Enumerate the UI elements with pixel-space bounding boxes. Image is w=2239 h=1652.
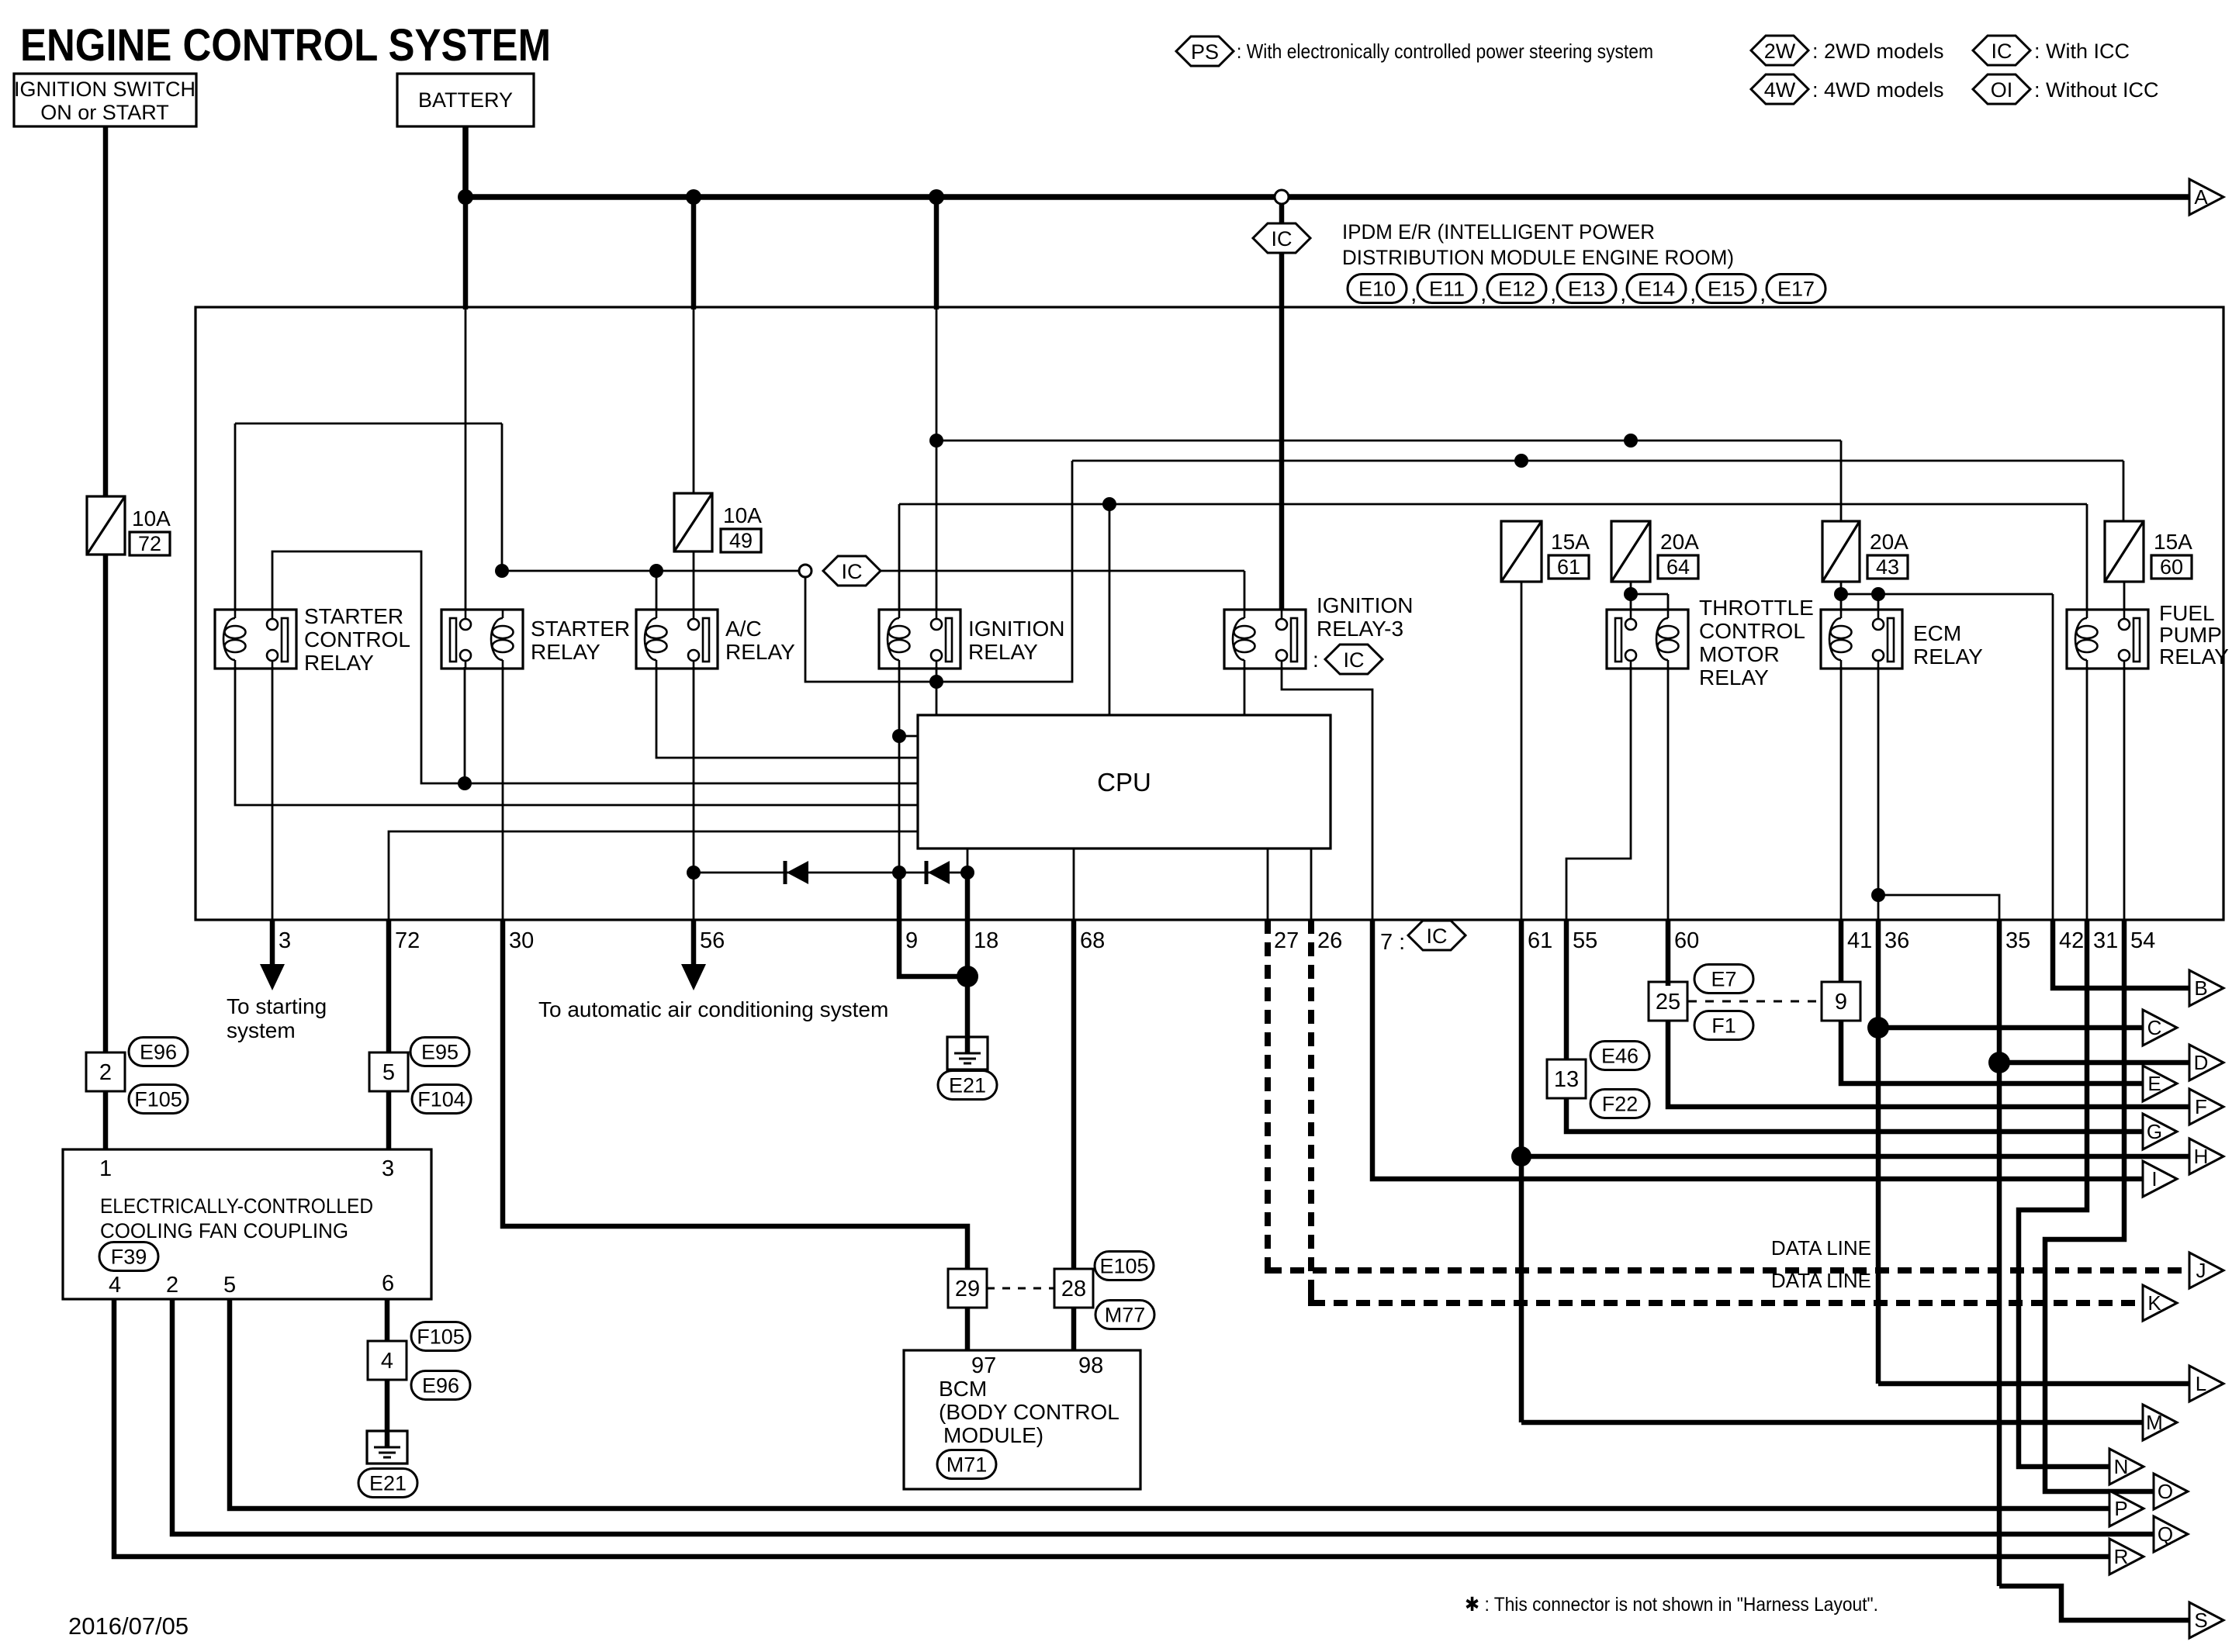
svg-text:K: K: [2147, 1291, 2161, 1315]
wire fan pin6 to connector4: [385, 1299, 390, 1341]
svg-text:: 2WD models: : 2WD models: [1812, 40, 1944, 63]
wire pin61 down to M: [1519, 920, 1524, 1422]
svg-text:F104: F104: [417, 1088, 465, 1111]
svg-text:97: 97: [971, 1353, 996, 1378]
legend 2W hexagon: [1751, 36, 1808, 65]
wire relay3 sw to pin7: [1282, 667, 1372, 920]
svg-text:7 :: 7 :: [1380, 930, 1405, 955]
wire pin42 to B: [2053, 920, 2189, 988]
svg-text:E95: E95: [421, 1041, 459, 1064]
svg-text:IC: IC: [1427, 924, 1448, 948]
svg-text:9: 9: [905, 928, 918, 953]
connector arrow J: [2189, 1253, 2223, 1288]
node ignition feed tap: [929, 434, 943, 448]
legend OI hexagon: [1973, 74, 2030, 104]
node starter relay sw bottom: [458, 776, 472, 790]
legend IC hexagon: [1973, 36, 2030, 65]
wire connector2 to fan pin1: [103, 1091, 109, 1149]
svg-text:CONTROL: CONTROL: [1699, 619, 1805, 643]
svg-text:STARTER: STARTER: [531, 617, 630, 641]
svg-text:system: system: [227, 1018, 296, 1042]
wire pin3 arrow to starting system: [270, 920, 275, 967]
svg-text:42: 42: [2059, 928, 2084, 953]
node fuse43 out: [1834, 587, 1848, 601]
wire A/C feed to fuse49: [693, 307, 695, 493]
svg-text:PS: PS: [1191, 40, 1219, 64]
wire ICC feed thick: [1279, 253, 1285, 610]
svg-text:4: 4: [381, 1349, 393, 1374]
oval E7: [1694, 965, 1753, 994]
svg-text:E11: E11: [1429, 278, 1465, 301]
wire relay coil bus y736: [502, 570, 812, 572]
wire fuel coil to pin31: [2086, 667, 2088, 920]
wire ign coil to CPU area: [898, 667, 901, 920]
wire M line: [1521, 1420, 2143, 1426]
svg-text:E15: E15: [1708, 278, 1745, 301]
svg-text:18: 18: [974, 928, 998, 953]
svg-text:,: ,: [1480, 281, 1486, 306]
relay ignition-3: [1224, 610, 1306, 669]
oval F105 lower: [411, 1322, 470, 1351]
wire starter control sw to pin3: [272, 667, 274, 920]
svg-text:J: J: [2196, 1259, 2206, 1282]
svg-text:E21: E21: [369, 1472, 407, 1495]
svg-text:,: ,: [1410, 281, 1417, 306]
wire fuse72 to connector 2: [103, 555, 109, 1053]
svg-text:: 4WD models: : 4WD models: [1812, 78, 1944, 102]
svg-text:60: 60: [1674, 928, 1699, 953]
wire pin9 to ground join: [899, 875, 967, 976]
bus wire: [465, 194, 2189, 200]
svg-text:72: 72: [395, 928, 420, 953]
svg-text:E96: E96: [140, 1041, 177, 1064]
node fuse61 tap: [1514, 454, 1528, 468]
svg-text:25: 25: [1656, 990, 1680, 1014]
wire pin30 to BCM 97: [503, 920, 967, 1273]
wire fan pin5 to P: [230, 1299, 2109, 1509]
svg-text:ECM: ECM: [1913, 621, 1961, 645]
node 36-35 link: [1871, 888, 1885, 902]
node starter coil tap: [495, 564, 509, 578]
diode D2: [925, 861, 929, 884]
svg-text:68: 68: [1080, 928, 1105, 953]
connector arrow B: [2189, 970, 2223, 1006]
svg-text:ON or START: ON or START: [40, 101, 169, 124]
connector arrow S: [2189, 1602, 2223, 1638]
oval F104: [412, 1085, 471, 1114]
svg-text:O: O: [2158, 1480, 2173, 1503]
svg-text:61: 61: [1528, 928, 1552, 953]
svg-text:E12: E12: [1498, 278, 1535, 301]
svg-text:41: 41: [1847, 928, 1872, 953]
svg-text:G: G: [2147, 1120, 2162, 1143]
wire fuse49 to A/C relay: [693, 551, 695, 610]
wire coil row y650: [899, 503, 2087, 506]
wire pin54 to O: [2045, 920, 2154, 1491]
wire pin41 to box9: [1839, 920, 1844, 986]
wire CPU pin26 down: [1310, 848, 1313, 920]
svg-text:STARTER: STARTER: [304, 604, 403, 628]
svg-text:,: ,: [1620, 281, 1626, 306]
dashed link 25-9: [1688, 1001, 1822, 1003]
wire pin56 arrow to A/C system: [691, 920, 697, 967]
wire fuse61 down: [1521, 582, 1523, 920]
svg-text:A/C: A/C: [725, 617, 762, 641]
svg-text:IGNITION: IGNITION: [1317, 593, 1413, 617]
ignition switch box: [14, 74, 196, 126]
wire ignition feed thick: [934, 197, 940, 309]
svg-text:E14: E14: [1638, 278, 1675, 301]
svg-text:RELAY: RELAY: [968, 640, 1038, 664]
node CPU feed tap: [1102, 497, 1116, 511]
connector box 2 E96/F105: [86, 1052, 125, 1091]
connector arrow C: [2143, 1010, 2177, 1045]
svg-text:M: M: [2146, 1411, 2163, 1434]
node H tap: [1511, 1146, 1531, 1166]
wire ignition feed thin: [936, 307, 938, 610]
connector box 28: [1054, 1269, 1093, 1308]
svg-text:To starting: To starting: [227, 994, 327, 1018]
BCM box: [904, 1350, 1140, 1489]
node diode row 9: [892, 866, 906, 880]
svg-text:BCM: BCM: [939, 1377, 987, 1401]
wire starter coil to pin30: [502, 667, 504, 920]
connector arrow I: [2143, 1161, 2177, 1197]
svg-text:20A: 20A: [1660, 530, 1699, 554]
IPDM E/R box: [196, 307, 2223, 920]
svg-text:CONTROL: CONTROL: [304, 627, 410, 651]
wire ICC feed thick upper: [1279, 203, 1285, 223]
node ignition switch bottom tap: [929, 675, 943, 689]
wire pin26 data line to K: [1308, 920, 1314, 1303]
svg-text:E17: E17: [1777, 278, 1815, 301]
wire fuse64 to relay: [1630, 582, 1632, 610]
svg-text:L: L: [2196, 1372, 2206, 1395]
node ECM switch tap: [1871, 587, 1885, 601]
svg-text:D: D: [2194, 1051, 2209, 1074]
svg-text:IC: IC: [1992, 40, 2012, 63]
oval F39: [99, 1242, 158, 1271]
node ICC bypass circle: [799, 565, 812, 577]
svg-text:2016/07/05: 2016/07/05: [68, 1612, 189, 1640]
svg-text:MODULE): MODULE): [943, 1423, 1043, 1447]
svg-text::: :: [1313, 648, 1319, 672]
wire A/C coil drop: [656, 571, 658, 610]
svg-text:CPU: CPU: [1097, 768, 1151, 797]
wire A/C sw to pin56: [693, 667, 695, 920]
svg-text:COOLING FAN COUPLING: COOLING FAN COUPLING: [100, 1219, 348, 1242]
svg-text:OI: OI: [1991, 78, 2013, 102]
node ground join: [957, 966, 978, 987]
svg-text:S: S: [2194, 1609, 2207, 1632]
relay ignition: [879, 610, 960, 669]
fuse 72 10A: [87, 496, 125, 555]
svg-text:,: ,: [1690, 281, 1696, 306]
connector arrow H: [2189, 1139, 2223, 1174]
svg-text:3: 3: [279, 928, 291, 953]
svg-text:64: 64: [1666, 555, 1690, 579]
svg-text:43: 43: [1876, 555, 1899, 579]
fuse 64 20A: [1611, 521, 1650, 582]
wire 36-35 link: [1878, 895, 1999, 920]
svg-text:56: 56: [700, 928, 725, 953]
wire relay3 coil to CPU: [1244, 667, 1246, 715]
wire battery feed thin: [465, 307, 467, 610]
fuse 49 10A: [674, 493, 712, 551]
wire fuse60 to fuel pump: [2123, 582, 2126, 610]
svg-text:E96: E96: [422, 1374, 459, 1398]
wire box28 to BCM 98: [1071, 1308, 1077, 1350]
wire H line: [1521, 1154, 2189, 1160]
relay starter control: [215, 610, 296, 669]
svg-text:MOTOR: MOTOR: [1699, 642, 1780, 666]
svg-text:54: 54: [2130, 928, 2155, 953]
wire starter sw path: [272, 551, 918, 783]
svg-text:FUEL: FUEL: [2159, 601, 2215, 625]
svg-text:5: 5: [382, 1060, 395, 1085]
node A/C coil tap: [649, 564, 663, 578]
svg-text:DATA LINE: DATA LINE: [1771, 1269, 1871, 1292]
wire CPU left stub y949: [899, 735, 918, 738]
relay ECM: [1821, 610, 1902, 669]
svg-text:E46: E46: [1601, 1045, 1639, 1068]
wire battery feed thick: [463, 197, 469, 309]
svg-text:E10: E10: [1358, 278, 1396, 301]
connector box 5 E95/F104: [369, 1052, 408, 1091]
CPU box: [918, 715, 1331, 848]
node battery junction: [458, 189, 473, 205]
svg-text:2: 2: [166, 1273, 178, 1298]
svg-text:: With electronically controll: : With electronically controlled power s…: [1237, 40, 1653, 63]
legend 4W hexagon: [1751, 74, 1808, 104]
svg-text:IGNITION SWITCH: IGNITION SWITCH: [14, 78, 196, 101]
svg-text:IC: IC: [1272, 227, 1293, 251]
svg-text:F1: F1: [1711, 1014, 1736, 1038]
svg-text:10A: 10A: [723, 503, 762, 527]
svg-text:27: 27: [1274, 928, 1299, 953]
wire pin35 to S: [1999, 1586, 2189, 1620]
wire CPU pin27 down: [1267, 848, 1269, 920]
wire throttle sw to pin55: [1566, 667, 1631, 920]
svg-text:A: A: [2194, 185, 2208, 209]
oval E95: [410, 1038, 469, 1066]
svg-text:IPDM E/R (INTELLIGENT POWER: IPDM E/R (INTELLIGENT POWER: [1342, 220, 1655, 244]
svg-text:RELAY: RELAY: [725, 640, 795, 664]
wire bypass row y594: [1072, 460, 2123, 462]
oval F1: [1694, 1011, 1753, 1040]
svg-text:72: 72: [138, 532, 161, 555]
wire pin27 data line to J: [1265, 920, 1271, 1270]
wire fan pin4 to R: [114, 1299, 2109, 1557]
diode D1: [784, 861, 787, 884]
svg-text:M71: M71: [946, 1453, 988, 1477]
relay starter: [441, 610, 523, 669]
connector arrow F: [2189, 1089, 2223, 1125]
oval E96 lower: [411, 1371, 470, 1400]
svg-text:9: 9: [1835, 990, 1847, 1014]
wire fan pin2 to Q: [172, 1299, 2154, 1534]
fuse 60 15A: [2105, 521, 2144, 582]
svg-text:DISTRIBUTION MODULE ENGINE ROO: DISTRIBUTION MODULE ENGINE ROOM): [1342, 246, 1734, 269]
wire C line: [1878, 1025, 2143, 1031]
svg-text:To automatic air conditioning: To automatic air conditioning system: [538, 997, 888, 1021]
connector arrow N: [2109, 1449, 2144, 1484]
wire ign/fuse row y568: [936, 440, 1841, 442]
connector arrow P: [2109, 1491, 2144, 1526]
svg-text:F: F: [2195, 1095, 2207, 1118]
svg-text:98: 98: [1078, 1353, 1103, 1378]
svg-text:60: 60: [2160, 555, 2183, 579]
node fuse64 tap: [1624, 434, 1638, 448]
svg-text:C: C: [2147, 1016, 2162, 1039]
wire box13 to G: [1566, 1098, 2143, 1132]
svg-text:RELAY: RELAY: [1913, 645, 1983, 669]
wire CPU feed stub: [1109, 504, 1111, 715]
svg-text:N: N: [2114, 1455, 2129, 1478]
svg-text:3: 3: [382, 1156, 394, 1181]
svg-text:✱ : This connector is not show: ✱ : This connector is not shown in "Harn…: [1465, 1594, 1878, 1616]
svg-text:IC: IC: [1344, 648, 1365, 672]
svg-text:E13: E13: [1568, 278, 1605, 301]
legend PS hexagon: [1176, 36, 1234, 66]
svg-text:26: 26: [1317, 928, 1342, 953]
node ignition feed junction: [929, 189, 944, 205]
node ICC option circle: [1275, 190, 1289, 204]
wire pin18 to ground: [965, 875, 971, 1037]
wire connector5 to fan pin3: [386, 1091, 392, 1149]
wire pin31 to N: [2019, 920, 2109, 1467]
battery box: [397, 74, 534, 126]
svg-text:36: 36: [1884, 928, 1909, 953]
svg-text:E21: E21: [949, 1074, 986, 1097]
oval F105: [129, 1085, 188, 1114]
svg-text:55: 55: [1573, 928, 1597, 953]
oval E105: [1095, 1252, 1154, 1280]
connector arrow K: [2143, 1285, 2177, 1321]
wire pin60 to box25: [1666, 920, 1671, 986]
wire bypass path: [805, 461, 1072, 682]
wire fuel sw to pin54: [2123, 667, 2126, 920]
svg-text:30: 30: [509, 928, 534, 953]
svg-text:DATA LINE: DATA LINE: [1771, 1236, 1871, 1260]
wire throttle coil to pin60: [1667, 667, 1670, 920]
svg-text:E105: E105: [1099, 1255, 1148, 1278]
svg-text:F105: F105: [134, 1088, 182, 1111]
wire CPU pin68 down: [1073, 848, 1075, 920]
connector box 25: [1649, 982, 1687, 1021]
svg-text:ELECTRICALLY-CONTROLLED: ELECTRICALLY-CONTROLLED: [100, 1194, 373, 1218]
svg-text:RELAY: RELAY: [2159, 645, 2229, 669]
svg-text:Q: Q: [2158, 1522, 2173, 1546]
node D tap: [1988, 1052, 2010, 1073]
svg-text:E7: E7: [1711, 968, 1736, 991]
connector box 4 F105/E96: [368, 1341, 407, 1380]
wire starter control row y546: [235, 423, 502, 425]
svg-text:20A: 20A: [1870, 530, 1909, 554]
wire ignition relay sw to CPU: [936, 667, 938, 715]
hexagon IC relay option: [823, 556, 881, 586]
svg-text:BATTERY: BATTERY: [418, 88, 513, 112]
svg-text:61: 61: [1557, 555, 1580, 579]
svg-text:10A: 10A: [132, 506, 171, 531]
svg-text:2: 2: [99, 1060, 112, 1085]
wire pin55 to box13: [1564, 920, 1569, 1063]
svg-text:,: ,: [1550, 281, 1556, 306]
wire pin36 down to L: [1876, 920, 1881, 1384]
svg-text:RELAY: RELAY: [304, 651, 374, 675]
svg-text:: Without ICC: : Without ICC: [2034, 78, 2159, 102]
wire box9 to E: [1841, 1021, 2143, 1083]
svg-text:5: 5: [223, 1273, 236, 1298]
connector arrow E: [2143, 1066, 2177, 1101]
wire pin68 to box28: [1071, 920, 1077, 1273]
wire A/C coil to CPU: [656, 667, 918, 758]
svg-text:28: 28: [1061, 1277, 1086, 1301]
wire CPU pin18 down: [967, 848, 969, 920]
cooling fan box: [63, 1149, 431, 1299]
wire ignition switch down: [103, 126, 109, 496]
node ign coil CPU tap: [892, 729, 906, 743]
oval M71: [937, 1450, 996, 1479]
relay throttle control motor: [1607, 610, 1688, 669]
svg-text:H: H: [2194, 1145, 2209, 1168]
wire pin72 to connector 5: [386, 920, 392, 1053]
svg-text:F39: F39: [111, 1246, 147, 1269]
connector arrow A: [2189, 179, 2223, 215]
svg-text:RELAY: RELAY: [531, 640, 600, 664]
wire D line: [1999, 1060, 2189, 1066]
svg-text:F105: F105: [417, 1325, 465, 1349]
svg-text:(BODY CONTROL: (BODY CONTROL: [939, 1400, 1119, 1424]
fuse 61 15A: [1501, 521, 1542, 582]
ground E21 (fan): [367, 1431, 407, 1464]
node diode row 18: [960, 866, 974, 880]
oval M77: [1095, 1301, 1154, 1329]
oval E21 (IPDM): [938, 1071, 997, 1100]
svg-text:: With ICC: : With ICC: [2034, 40, 2130, 63]
node fuse64 out: [1624, 587, 1638, 601]
svg-text:35: 35: [2005, 928, 2030, 953]
fuse 43 20A: [1822, 521, 1860, 582]
svg-text:PUMP: PUMP: [2159, 623, 2222, 647]
svg-text:2W: 2W: [1764, 40, 1796, 63]
wire ECM sw to pin36: [1877, 667, 1880, 920]
node C tap: [1867, 1017, 1889, 1039]
svg-text:49: 49: [729, 529, 753, 552]
oval E21 (fan): [358, 1469, 417, 1498]
svg-text:ENGINE CONTROL SYSTEM: ENGINE CONTROL SYSTEM: [20, 20, 551, 71]
oval E46: [1590, 1042, 1649, 1070]
connector arrow O: [2154, 1474, 2188, 1509]
svg-text:,: ,: [1760, 281, 1766, 306]
connector box 9: [1822, 982, 1860, 1021]
svg-text:IC: IC: [842, 560, 863, 583]
svg-text:1: 1: [99, 1156, 112, 1181]
wire L line: [1878, 1381, 2189, 1387]
wire box29 to BCM: [965, 1308, 971, 1350]
wire fuse43 to relays: [1840, 582, 1843, 610]
relay fuel pump: [2067, 610, 2148, 669]
wire pin7 to I: [1372, 920, 2143, 1179]
svg-text:RELAY-3: RELAY-3: [1317, 617, 1403, 641]
svg-text:31: 31: [2093, 928, 2118, 953]
svg-text:THROTTLE: THROTTLE: [1699, 596, 1814, 620]
wire battery to bus: [462, 126, 469, 197]
node A/C feed junction: [686, 189, 701, 205]
wire connector4 to ground: [385, 1380, 390, 1431]
wire starter control coil to CPU: [235, 667, 918, 805]
svg-text:15A: 15A: [2154, 530, 2192, 554]
